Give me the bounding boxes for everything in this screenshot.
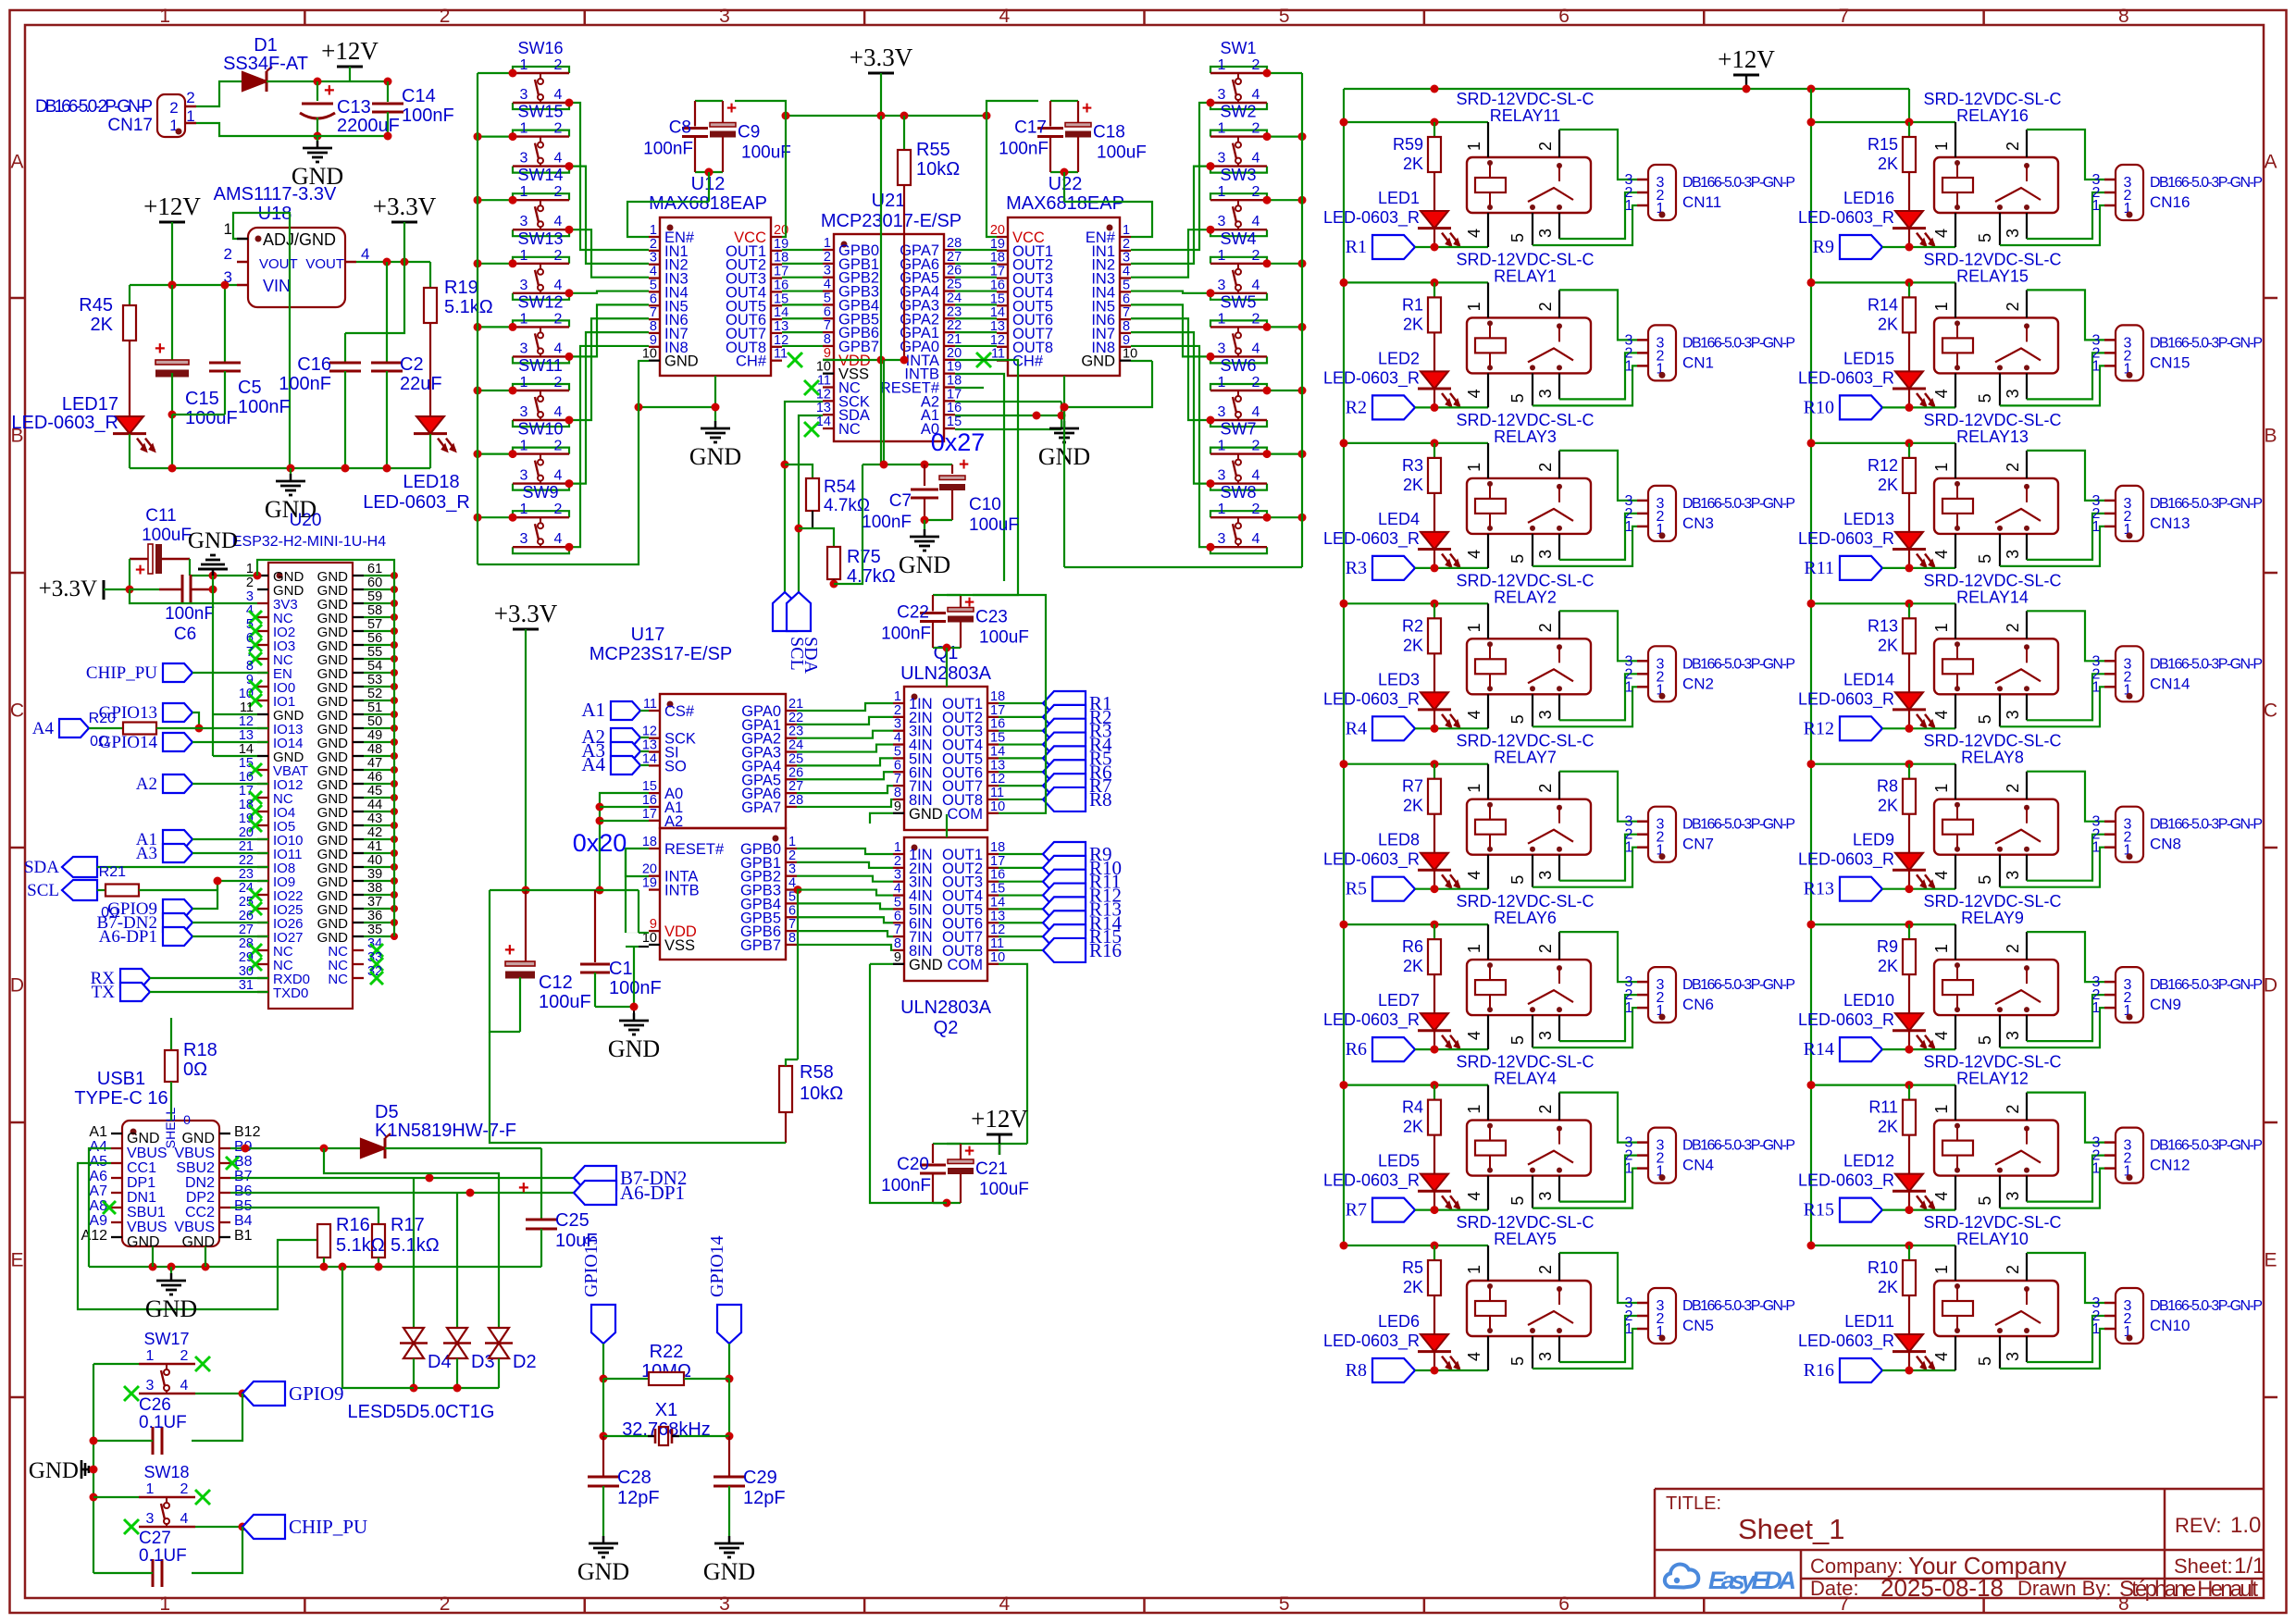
- svg-text:14: 14: [990, 895, 1005, 910]
- svg-text:1: 1: [2092, 679, 2101, 695]
- svg-text:1: 1: [1465, 1265, 1483, 1274]
- svg-text:+: +: [1082, 99, 1092, 118]
- svg-text:DB166-5.0-3P-GN-P: DB166-5.0-3P-GN-P: [1682, 977, 1795, 993]
- svg-text:4: 4: [1465, 1352, 1483, 1361]
- svg-text:1: 1: [2092, 198, 2101, 214]
- svg-text:SW14: SW14: [517, 166, 563, 184]
- svg-text:3: 3: [520, 404, 528, 420]
- svg-text:3: 3: [1123, 251, 1130, 266]
- svg-text:LED-0603_R: LED-0603_R: [1323, 689, 1420, 709]
- svg-text:4: 4: [1932, 1192, 1951, 1201]
- svg-text:58: 58: [367, 603, 382, 618]
- svg-text:2K: 2K: [1878, 1278, 1898, 1296]
- svg-text:26: 26: [947, 264, 962, 279]
- svg-text:1: 1: [520, 439, 528, 454]
- svg-text:4: 4: [554, 341, 563, 356]
- svg-text:R2: R2: [1402, 616, 1423, 635]
- svg-text:4: 4: [1123, 265, 1130, 279]
- svg-text:SRD-12VDC-SL-C: SRD-12VDC-SL-C: [1456, 250, 1594, 268]
- svg-text:17: 17: [990, 854, 1005, 869]
- svg-text:SBU2: SBU2: [176, 1160, 215, 1176]
- svg-text:1: 1: [2092, 1321, 2101, 1337]
- svg-text:8: 8: [894, 936, 901, 951]
- svg-text:4: 4: [180, 1511, 189, 1527]
- svg-text:0.1UF: 0.1UF: [139, 1413, 187, 1432]
- svg-text:2K: 2K: [1878, 476, 1898, 494]
- svg-text:100nF: 100nF: [881, 1176, 931, 1196]
- svg-text:3: 3: [520, 341, 528, 356]
- svg-text:C21: C21: [975, 1159, 1008, 1179]
- svg-text:1: 1: [520, 502, 528, 517]
- svg-text:6: 6: [650, 291, 657, 306]
- svg-text:LED-0603_R: LED-0603_R: [1798, 368, 1894, 388]
- svg-text:25: 25: [239, 895, 254, 910]
- svg-text:4: 4: [1932, 229, 1951, 238]
- svg-text:4: 4: [1252, 87, 1260, 103]
- svg-text:LED15: LED15: [1843, 349, 1894, 367]
- svg-text:5: 5: [1508, 554, 1527, 564]
- svg-text:3: 3: [894, 868, 901, 883]
- svg-text:3: 3: [1218, 531, 1226, 547]
- svg-text:+: +: [964, 1142, 974, 1161]
- svg-text:Sheet_1: Sheet_1: [1738, 1513, 1845, 1545]
- svg-text:SRD-12VDC-SL-C: SRD-12VDC-SL-C: [1456, 571, 1594, 589]
- svg-text:3: 3: [719, 1593, 730, 1615]
- svg-text:COM: COM: [948, 806, 984, 823]
- svg-text:DB166-5.0-3P-GN-P: DB166-5.0-3P-GN-P: [1682, 656, 1795, 672]
- svg-text:20: 20: [239, 825, 254, 840]
- svg-text:4: 4: [824, 278, 831, 292]
- svg-text:LESD5D5.0CT1G: LESD5D5.0CT1G: [348, 1402, 495, 1422]
- svg-text:6: 6: [1558, 1593, 1570, 1615]
- svg-text:DN2: DN2: [185, 1175, 215, 1191]
- svg-text:D4: D4: [428, 1352, 452, 1372]
- svg-text:VSS: VSS: [664, 937, 695, 954]
- svg-text:SO: SO: [664, 758, 687, 774]
- svg-text:E: E: [2264, 1250, 2277, 1271]
- svg-text:1: 1: [1625, 679, 1633, 695]
- svg-text:2K: 2K: [1403, 315, 1423, 333]
- svg-text:1: 1: [520, 57, 528, 73]
- svg-text:CN17: CN17: [107, 116, 153, 135]
- svg-text:R8: R8: [1089, 788, 1112, 811]
- svg-text:DP2: DP2: [186, 1190, 215, 1206]
- svg-text:U20: U20: [290, 511, 322, 530]
- svg-text:GPIO13: GPIO13: [581, 1235, 602, 1297]
- svg-text:3: 3: [2004, 389, 2022, 398]
- svg-text:B6: B6: [234, 1183, 253, 1199]
- svg-text:R58: R58: [800, 1062, 834, 1083]
- svg-text:55: 55: [367, 645, 382, 660]
- svg-text:50: 50: [367, 714, 382, 729]
- svg-text:48: 48: [367, 742, 382, 757]
- svg-text:4: 4: [1252, 531, 1260, 547]
- svg-text:SW1: SW1: [1220, 39, 1256, 57]
- svg-text:10: 10: [1123, 347, 1137, 362]
- svg-text:DB166-5.0-3P-GN-P: DB166-5.0-3P-GN-P: [2150, 496, 2263, 512]
- svg-text:2: 2: [788, 849, 796, 863]
- svg-text:SRD-12VDC-SL-C: SRD-12VDC-SL-C: [1923, 250, 2061, 268]
- svg-text:LED5: LED5: [1378, 1152, 1420, 1171]
- svg-text:1: 1: [1465, 623, 1483, 632]
- svg-text:5: 5: [1976, 393, 1994, 403]
- svg-text:LED3: LED3: [1378, 670, 1420, 688]
- svg-text:+3.3V: +3.3V: [373, 192, 437, 220]
- svg-text:18: 18: [990, 689, 1005, 704]
- svg-text:LED18: LED18: [403, 472, 459, 492]
- svg-text:DB166-5.0-3P-GN-P: DB166-5.0-3P-GN-P: [1682, 175, 1795, 191]
- svg-text:R10: R10: [1868, 1258, 1898, 1277]
- svg-text:GPB7: GPB7: [740, 937, 781, 954]
- svg-text:1: 1: [1932, 623, 1951, 632]
- svg-text:SRD-12VDC-SL-C: SRD-12VDC-SL-C: [1456, 892, 1594, 911]
- svg-text:CN5: CN5: [1682, 1317, 1714, 1334]
- svg-text:3: 3: [1536, 1352, 1555, 1361]
- svg-text:GPA7: GPA7: [741, 799, 781, 816]
- svg-text:5: 5: [1976, 1196, 1994, 1206]
- svg-text:3: 3: [520, 151, 528, 167]
- svg-text:56: 56: [367, 631, 382, 646]
- svg-text:1: 1: [1932, 142, 1951, 151]
- svg-text:RELAY12: RELAY12: [1956, 1070, 2029, 1088]
- svg-text:7: 7: [824, 318, 831, 333]
- svg-text:A2: A2: [136, 774, 157, 794]
- svg-text:GND: GND: [127, 1131, 160, 1146]
- svg-text:R5: R5: [1402, 1258, 1423, 1277]
- svg-text:2: 2: [1252, 439, 1260, 454]
- svg-text:7: 7: [650, 305, 657, 320]
- svg-text:5: 5: [1508, 1357, 1527, 1366]
- svg-text:A4: A4: [581, 753, 605, 775]
- svg-text:R14: R14: [1804, 1039, 1834, 1059]
- svg-text:4: 4: [1932, 871, 1951, 880]
- svg-text:A4: A4: [32, 719, 55, 738]
- svg-text:5: 5: [1508, 1196, 1527, 1206]
- svg-text:7: 7: [1839, 6, 1850, 27]
- svg-text:2: 2: [1536, 302, 1555, 311]
- svg-text:C28: C28: [617, 1468, 652, 1488]
- svg-text:2: 2: [1252, 57, 1260, 73]
- svg-text:C18: C18: [1093, 123, 1125, 142]
- svg-text:DB166-5.0-3P-GN-P: DB166-5.0-3P-GN-P: [2150, 656, 2263, 672]
- svg-text:LED-0603_R: LED-0603_R: [1798, 689, 1894, 709]
- svg-text:1: 1: [1625, 1321, 1633, 1337]
- svg-text:3: 3: [520, 214, 528, 229]
- svg-text:R55: R55: [916, 140, 950, 160]
- svg-text:4: 4: [1252, 151, 1260, 167]
- svg-text:1: 1: [788, 835, 796, 849]
- svg-text:USB1: USB1: [97, 1069, 145, 1089]
- svg-text:LED-0603_R: LED-0603_R: [1323, 368, 1420, 388]
- svg-text:3: 3: [146, 1378, 155, 1394]
- svg-text:3: 3: [2004, 871, 2022, 880]
- svg-text:100nF: 100nF: [165, 604, 215, 624]
- svg-text:1.0: 1.0: [2230, 1513, 2261, 1538]
- svg-text:DB166-5.0-3P-GN-P: DB166-5.0-3P-GN-P: [1682, 335, 1795, 351]
- svg-text:SBU1: SBU1: [127, 1205, 166, 1220]
- svg-text:GPIO14: GPIO14: [99, 733, 158, 752]
- svg-text:R20: R20: [89, 711, 116, 726]
- svg-text:9: 9: [1123, 333, 1130, 348]
- svg-text:C10: C10: [969, 495, 1001, 514]
- svg-text:1: 1: [1932, 463, 1951, 472]
- svg-text:2: 2: [1536, 784, 1555, 793]
- svg-text:2025-08-18: 2025-08-18: [1880, 1574, 2004, 1602]
- svg-text:23: 23: [239, 867, 254, 882]
- svg-text:SW10: SW10: [517, 420, 563, 439]
- svg-text:SCL: SCL: [27, 881, 59, 900]
- svg-text:3: 3: [520, 278, 528, 293]
- svg-text:NC: NC: [838, 421, 861, 438]
- svg-text:3: 3: [2004, 229, 2022, 238]
- svg-text:+: +: [504, 940, 515, 960]
- svg-text:20: 20: [642, 862, 657, 877]
- svg-text:30: 30: [239, 964, 254, 979]
- svg-text:CN15: CN15: [2150, 353, 2190, 371]
- svg-text:4: 4: [1252, 341, 1260, 356]
- svg-text:1: 1: [1932, 302, 1951, 311]
- svg-text:R21: R21: [99, 864, 126, 880]
- svg-text:SW11: SW11: [518, 356, 563, 375]
- svg-text:4: 4: [1252, 214, 1260, 229]
- svg-text:3: 3: [719, 6, 730, 27]
- svg-text:CN4: CN4: [1682, 1157, 1714, 1174]
- svg-text:R3: R3: [1346, 558, 1367, 578]
- svg-text:MCP23S17-E/SP: MCP23S17-E/SP: [590, 644, 733, 664]
- svg-text:9: 9: [894, 799, 901, 814]
- svg-text:3: 3: [1536, 389, 1555, 398]
- svg-text:24: 24: [947, 291, 962, 305]
- svg-text:7: 7: [788, 917, 796, 932]
- svg-text:8: 8: [246, 659, 254, 674]
- svg-text:2K: 2K: [1403, 636, 1423, 654]
- svg-text:5: 5: [1508, 875, 1527, 885]
- svg-text:5: 5: [1508, 233, 1527, 242]
- svg-text:K1N5819HW-7-F: K1N5819HW-7-F: [375, 1121, 516, 1141]
- svg-text:LED7: LED7: [1378, 991, 1420, 1010]
- svg-text:4: 4: [1932, 1352, 1951, 1361]
- svg-text:2: 2: [1252, 121, 1260, 137]
- svg-text:SW15: SW15: [517, 103, 563, 121]
- svg-text:SW4: SW4: [1220, 229, 1256, 248]
- svg-text:1: 1: [1218, 57, 1226, 73]
- svg-text:1: 1: [224, 220, 232, 238]
- svg-text:1: 1: [2092, 519, 2101, 535]
- svg-text:R1: R1: [1402, 295, 1423, 314]
- svg-text:SW16: SW16: [517, 39, 563, 57]
- svg-text:13: 13: [239, 728, 254, 743]
- svg-text:23: 23: [947, 304, 962, 319]
- svg-text:2K: 2K: [1878, 155, 1898, 173]
- svg-text:47: 47: [367, 756, 382, 771]
- svg-text:+: +: [155, 339, 166, 359]
- svg-text:1: 1: [1465, 1105, 1483, 1114]
- svg-text:100uF: 100uF: [185, 408, 238, 428]
- svg-text:38: 38: [367, 881, 382, 896]
- svg-text:1: 1: [1465, 302, 1483, 311]
- svg-text:B12: B12: [234, 1124, 261, 1140]
- svg-text:44: 44: [367, 798, 382, 812]
- svg-text:LED13: LED13: [1843, 510, 1894, 528]
- svg-text:ADJ/GND: ADJ/GND: [263, 230, 336, 249]
- svg-text:LED-0603_R: LED-0603_R: [1323, 1010, 1420, 1030]
- svg-text:3: 3: [2004, 1352, 2022, 1361]
- svg-text:1/1: 1/1: [2234, 1554, 2265, 1579]
- svg-text:D5: D5: [375, 1102, 399, 1122]
- svg-text:LED-0603_R: LED-0603_R: [1798, 850, 1894, 870]
- svg-text:5: 5: [894, 744, 901, 759]
- svg-text:REV:: REV:: [2175, 1514, 2222, 1537]
- svg-text:12pF: 12pF: [743, 1488, 786, 1508]
- svg-text:18: 18: [239, 798, 254, 812]
- svg-text:ESP32-H2-MINI-1U-H4: ESP32-H2-MINI-1U-H4: [232, 534, 386, 550]
- svg-text:R3: R3: [1402, 456, 1423, 475]
- svg-text:15: 15: [947, 415, 962, 429]
- svg-text:C9: C9: [738, 123, 760, 142]
- svg-text:3: 3: [1218, 404, 1226, 420]
- svg-text:100uF: 100uF: [979, 628, 1029, 648]
- svg-text:CN11: CN11: [1682, 193, 1721, 211]
- svg-text:5: 5: [894, 895, 901, 910]
- svg-text:2: 2: [1536, 463, 1555, 472]
- svg-text:RELAY8: RELAY8: [1961, 749, 2024, 767]
- svg-text:CN3: CN3: [1682, 514, 1714, 532]
- svg-text:DB166-5.0-3P-GN-P: DB166-5.0-3P-GN-P: [2150, 175, 2263, 191]
- svg-text:+12V: +12V: [971, 1105, 1028, 1133]
- svg-text:C26: C26: [139, 1395, 171, 1415]
- svg-text:4: 4: [1465, 229, 1483, 238]
- svg-text:D1: D1: [254, 35, 278, 56]
- svg-text:3: 3: [1218, 87, 1226, 103]
- svg-text:10: 10: [816, 360, 831, 375]
- svg-text:7: 7: [1123, 305, 1130, 320]
- svg-text:R17: R17: [391, 1215, 425, 1235]
- svg-text:1: 1: [1932, 1105, 1951, 1114]
- svg-text:27: 27: [788, 779, 803, 794]
- svg-text:ULN2803A: ULN2803A: [900, 997, 992, 1018]
- svg-text:1: 1: [2092, 1000, 2101, 1016]
- svg-text:LED1: LED1: [1378, 189, 1420, 207]
- svg-text:Date:: Date:: [1810, 1577, 1859, 1600]
- svg-text:12: 12: [239, 714, 254, 729]
- svg-text:3: 3: [1218, 151, 1226, 167]
- svg-text:TITLE:: TITLE:: [1666, 1493, 1721, 1514]
- svg-text:10: 10: [642, 347, 657, 362]
- svg-text:3: 3: [520, 468, 528, 484]
- svg-text:40: 40: [367, 853, 382, 868]
- svg-text:17: 17: [947, 387, 962, 402]
- svg-text:R11: R11: [1868, 1098, 1898, 1117]
- svg-text:2: 2: [180, 1481, 189, 1497]
- svg-text:MCP23017-E/SP: MCP23017-E/SP: [821, 211, 962, 231]
- svg-text:6: 6: [894, 909, 901, 923]
- svg-text:12pF: 12pF: [617, 1488, 660, 1508]
- svg-text:100uF: 100uF: [741, 143, 791, 163]
- svg-text:5: 5: [650, 278, 657, 292]
- svg-text:R54: R54: [824, 477, 856, 497]
- svg-text:1: 1: [1625, 198, 1633, 214]
- svg-text:26: 26: [788, 765, 803, 780]
- svg-text:CHIP_PU: CHIP_PU: [86, 663, 157, 683]
- svg-text:+: +: [135, 561, 145, 580]
- svg-text:2: 2: [1536, 1265, 1555, 1274]
- svg-text:SRD-12VDC-SL-C: SRD-12VDC-SL-C: [1923, 90, 2061, 108]
- svg-text:3: 3: [2004, 550, 2022, 559]
- svg-text:4: 4: [554, 278, 563, 293]
- svg-text:SRD-12VDC-SL-C: SRD-12VDC-SL-C: [1456, 1213, 1594, 1232]
- svg-text:1: 1: [146, 1348, 155, 1364]
- svg-text:4: 4: [554, 214, 563, 229]
- svg-text:R9: R9: [1877, 937, 1898, 956]
- svg-text:1: 1: [894, 689, 901, 704]
- svg-text:1: 1: [650, 223, 657, 238]
- svg-text:5: 5: [1976, 714, 1994, 724]
- svg-text:4: 4: [1932, 710, 1951, 719]
- svg-text:GND: GND: [909, 957, 943, 973]
- svg-text:R1: R1: [1346, 237, 1367, 257]
- svg-text:GND: GND: [703, 1558, 755, 1585]
- svg-text:A7: A7: [89, 1183, 107, 1199]
- svg-text:3: 3: [1536, 550, 1555, 559]
- svg-text:7: 7: [894, 772, 901, 787]
- svg-text:SS34F-AT: SS34F-AT: [223, 54, 308, 74]
- svg-text:COM: COM: [948, 957, 984, 973]
- svg-text:5.1kΩ: 5.1kΩ: [391, 1235, 440, 1256]
- svg-text:100uF: 100uF: [142, 526, 192, 545]
- svg-text:LED-0603_R: LED-0603_R: [1323, 529, 1420, 549]
- svg-text:1: 1: [1625, 1000, 1633, 1016]
- svg-text:C7: C7: [889, 491, 912, 511]
- svg-text:RELAY13: RELAY13: [1956, 427, 2029, 446]
- svg-text:2: 2: [650, 237, 657, 252]
- svg-text:1: 1: [520, 121, 528, 137]
- svg-text:19: 19: [642, 876, 657, 891]
- svg-text:GND: GND: [577, 1558, 629, 1585]
- svg-text:LED16: LED16: [1843, 189, 1894, 207]
- svg-text:1: 1: [520, 311, 528, 327]
- svg-text:C25: C25: [555, 1210, 590, 1231]
- svg-text:2: 2: [1252, 502, 1260, 517]
- svg-text:1: 1: [1625, 840, 1633, 856]
- svg-text:13: 13: [990, 758, 1005, 773]
- svg-text:27: 27: [239, 923, 254, 937]
- svg-text:LED2: LED2: [1378, 349, 1420, 367]
- svg-text:20: 20: [990, 223, 1005, 238]
- svg-text:8: 8: [788, 931, 796, 946]
- svg-text:VOUT: VOUT: [259, 256, 298, 272]
- svg-text:DB166-5.0-3P-GN-P: DB166-5.0-3P-GN-P: [2150, 977, 2263, 993]
- svg-text:17: 17: [239, 784, 254, 799]
- svg-text:A6-DP1: A6-DP1: [99, 927, 157, 947]
- svg-text:SRD-12VDC-SL-C: SRD-12VDC-SL-C: [1923, 1053, 2061, 1072]
- svg-text:17: 17: [642, 807, 657, 822]
- svg-text:25: 25: [788, 751, 803, 766]
- svg-text:R4: R4: [1402, 1098, 1423, 1117]
- svg-text:28: 28: [239, 936, 254, 951]
- svg-text:LED-0603_R: LED-0603_R: [1798, 1010, 1894, 1030]
- svg-text:LED9: LED9: [1853, 831, 1894, 849]
- svg-text:R12: R12: [1804, 718, 1834, 738]
- svg-text:A3: A3: [136, 844, 157, 863]
- svg-text:11: 11: [643, 697, 657, 712]
- svg-text:9: 9: [824, 346, 831, 361]
- svg-text:39: 39: [367, 867, 382, 882]
- svg-text:28: 28: [947, 236, 962, 251]
- svg-text:CN2: CN2: [1682, 675, 1714, 692]
- svg-text:+: +: [726, 99, 737, 118]
- svg-text:4: 4: [894, 882, 901, 897]
- svg-text:A: A: [10, 152, 23, 173]
